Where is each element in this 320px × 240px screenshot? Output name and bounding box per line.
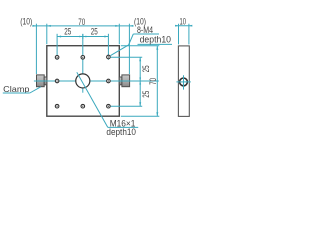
clamp knob left collar [44, 77, 47, 85]
center tick row2 [82, 34, 84, 39]
dimension line right 70 [156, 46, 158, 117]
M4 hole mid-left [55, 79, 59, 83]
arrow row2 right [104, 36, 108, 38]
svg-text:25: 25 [64, 26, 71, 37]
side view extension left [178, 24, 180, 45]
arrow side right [189, 25, 192, 27]
M4 hole mid-right [107, 79, 111, 83]
leader 8-M4 landing [133, 33, 159, 35]
leader M16 landing [108, 126, 138, 128]
M4 hole top-left [55, 56, 59, 60]
svg-text:25: 25 [141, 91, 152, 98]
right extension line bottom hole row [111, 105, 143, 107]
extension line col right holes [107, 34, 109, 60]
side view centerline horizontal [176, 81, 190, 83]
dimension line side 10 [175, 25, 191, 27]
plate body (front view) [47, 46, 120, 117]
svg-text:depth10: depth10 [140, 34, 171, 45]
extension line plate left edge [46, 24, 48, 45]
svg-text:25: 25 [91, 26, 98, 37]
M4 hole top-right [107, 55, 111, 59]
arrow row1 at 36.4 [32, 25, 36, 27]
svg-text:70: 70 [78, 17, 85, 28]
M4 hole top-center [81, 56, 85, 60]
arrow right dim1 center down [139, 81, 141, 84]
dimension line top row1 [33, 25, 133, 27]
svg-text:70: 70 [148, 78, 159, 85]
Clamp underline [3, 92, 30, 94]
arrow row2 center right [83, 36, 86, 38]
arrow row1 at 129.4 [129, 25, 133, 27]
extension line plate right edge [118, 24, 120, 45]
center tick right dim1 [138, 80, 143, 82]
M4 hole bottom-right [107, 104, 111, 108]
arrow row1 at 46.8 [47, 25, 51, 27]
svg-text:(10): (10) [20, 17, 32, 28]
svg-text:depth10: depth10 [106, 127, 136, 138]
dimension line right 25-25 [139, 57, 141, 106]
extension line col left holes [56, 34, 58, 60]
extension line knob right face [128, 24, 130, 74]
right extension line plate top [121, 45, 160, 47]
centerline vertical (middle column) [82, 34, 84, 93]
leader M16 [77, 72, 108, 127]
leader depth10 landing [138, 43, 173, 45]
leader 8-M4 (kinked) [110, 34, 133, 56]
right extension line top hole row [111, 56, 143, 58]
svg-text:10: 10 [179, 17, 186, 28]
Clamp leader diagonal [30, 87, 41, 93]
clamp knob right body [122, 75, 130, 87]
right extension line plate bottom [121, 115, 160, 117]
arrow row2 left [57, 36, 61, 38]
svg-text:25: 25 [141, 65, 152, 72]
arrow side left [175, 25, 178, 27]
arrow row2 center left [79, 36, 82, 38]
clamp knob right collar [119, 77, 122, 85]
M4 hole bottom-left [55, 104, 59, 108]
side view plate [178, 46, 189, 117]
clamp knob left body [37, 75, 45, 87]
arrow right dim1 center up [139, 78, 141, 81]
dimension line top row2 [57, 36, 108, 38]
M4 hole bottom-center [81, 104, 85, 108]
side view knob circle [180, 78, 188, 86]
centerline horizontal (middle row) [34, 80, 159, 82]
arrow right dim2 top [156, 46, 158, 50]
arrow right dim2 bottom [156, 112, 158, 116]
side view centerline vertical [183, 75, 185, 89]
arrow right dim1 bottom [139, 102, 141, 106]
side view extension right [188, 24, 190, 45]
extension line knob left face [35, 24, 37, 74]
M16 center hole [76, 74, 90, 88]
arrow row1 at 119.3 [115, 25, 119, 27]
arrow right dim1 top [139, 57, 141, 61]
